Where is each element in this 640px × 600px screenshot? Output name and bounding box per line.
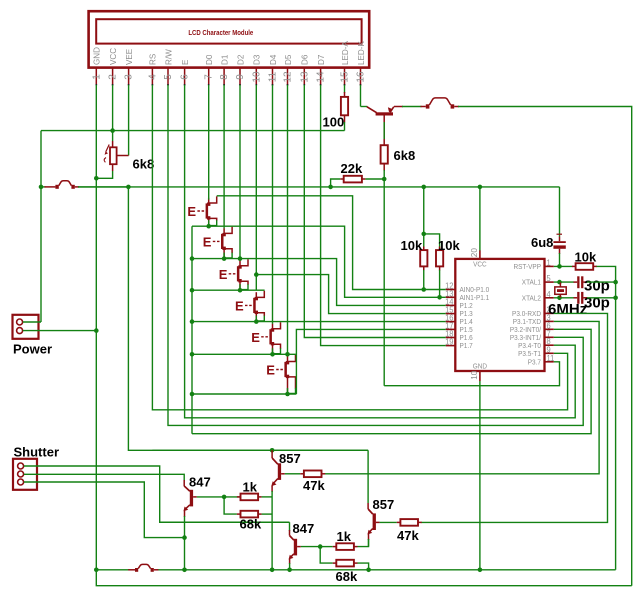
junction staircase L6 [190,352,195,357]
resistor R12 68k leads [333,562,337,564]
svg-text:R/W: R/W [164,49,173,65]
junction Q5 emitter bus [287,568,292,573]
svg-text:10k: 10k [575,249,597,264]
transistor T2 emitter drop [223,249,225,258]
transistor T3 collector stub [239,261,241,266]
IC U1 microcontroller body [455,259,544,371]
wire R3 to node y179 [383,164,385,171]
wire Shutter pin1 row [24,466,290,522]
junction VCC row chip [478,185,483,190]
IC U1 right pin 8 (P3.4-T0) stub [545,344,554,346]
LCD pin 4 (RS) stub [151,67,153,85]
wire top bus corner down to 857-2 [367,450,369,503]
transistor T2 collector stub [223,228,225,233]
junction R6 AIN1 [437,295,442,300]
wire D5 vertical [287,85,289,357]
wire 68k2 branch [320,547,333,564]
transistor Q4 base lead [281,473,285,475]
wire L4 row stub [192,289,265,291]
transistor T3 base dashed lead [229,273,237,275]
LCD pin 5 (R/W) stub [167,67,169,85]
svg-text:P3.4-T0: P3.4-T0 [518,343,541,350]
svg-text:5: 5 [547,274,552,283]
IC U1 VCC pin 20 stub [479,250,481,259]
svg-text:AIN1-P1.1: AIN1-P1.1 [460,295,490,302]
transistor T3 collector pad [238,265,241,268]
IC U1 right pin 2 (P3.0-RXD) stub [545,312,554,314]
resistor R7 10k leads [572,265,576,267]
junction T3 emitter [238,288,243,293]
svg-text:D6: D6 [301,54,310,65]
IC U1 right pin 5 (XTAL1) stub [545,281,554,283]
svg-text:68k: 68k [240,517,262,532]
wire D1 vertical [223,85,225,228]
junction staircase L4 [190,288,195,293]
transistor Q1 emitter lead with arrow [390,107,394,113]
wire VCC row to chip pin20 [479,187,481,251]
transistor T6 emitter drop [287,377,289,394]
wire Shutter pin2 row [24,474,184,481]
transistor T3 emitter pad [238,279,241,282]
svg-text:4: 4 [147,74,158,80]
transistor Q1 base bar [376,112,393,115]
svg-text:847: 847 [293,521,315,536]
transistor T4 emitter loop [257,313,265,316]
junction staircase L3 [190,256,195,261]
svg-text:E: E [235,299,244,314]
resistor R13 47k body [400,519,418,526]
IC U1 left pin 17 (P1.5) stub [446,328,456,330]
transistor T3 emitter loop [241,281,249,285]
transistor T2 emitter pad [222,247,225,250]
svg-text:30p: 30p [584,278,610,295]
capacitor C1 6u8 plus mark [557,233,563,235]
wire P3.7 row to 6k8 node [384,362,559,386]
wire LCD pin2 VCC vertical [112,85,114,141]
LCD module U$1 outline [89,11,370,67]
transistor Q3 base bar [190,490,193,507]
IC U1 GND pin 10 stub [479,371,481,381]
capacitor C3 30p plates [577,292,579,304]
wire L7 row [192,393,296,395]
svg-text:RST-VPP: RST-VPP [513,264,541,271]
svg-text:P3.5-T1: P3.5-T1 [518,351,541,358]
capacitor C2 leads [574,281,578,283]
svg-text:P3.1-TXD: P3.1-TXD [513,319,541,326]
wire XTAL2 row [554,297,574,299]
IC U1 left pin 18 (P1.6) stub [446,337,456,339]
wire R6 bottom to AIN1 row [439,270,441,297]
svg-text:AIN0-P1.0: AIN0-P1.0 [460,287,490,294]
junction staircase L7 [190,392,195,397]
transistor T3 collector loop [241,259,249,266]
wire LED-K to transistor Q1 [361,106,368,108]
transistor Q4 857 collector lead [271,450,273,458]
transistor Q6 857 collector lead [367,503,369,509]
transistor Q6 base bar [373,513,376,530]
transistor T1 base dashed lead [197,210,205,212]
wire node y179 down to P3.7 row [383,179,385,386]
transistor Q5 847 collector lead [289,530,291,536]
resistor R3 6k8 body [381,145,388,163]
wire E to T0 row [185,85,576,418]
junction Shutter3-emitter [182,535,187,540]
junction VCC pin2 [110,128,115,133]
LCD pin 10 (D3) stub [255,67,257,85]
junction T4 emitter [254,319,259,324]
svg-text:11: 11 [268,71,279,82]
junction Power- GND [94,328,99,333]
connector SV1 Power body [13,315,39,339]
svg-text:857: 857 [279,451,301,466]
transistor T6 collector loop [288,355,296,362]
transistor T1 collector pad [207,203,210,206]
svg-text:100: 100 [323,114,345,129]
transistor T5 emitter pad [271,342,274,345]
wire 68k right to emitter vertical [262,513,273,515]
IC U1 left pin 14 (P1.2) stub [446,304,456,306]
wire VCC row y187 [41,186,46,188]
LCD pin 7 (D0) stub [208,67,210,85]
svg-text:1: 1 [91,74,102,80]
svg-text:6: 6 [180,74,191,80]
junction D2 end [238,256,243,261]
transistor Q4 base bar [278,463,281,480]
svg-text:2: 2 [108,74,119,80]
svg-text:47k: 47k [397,528,419,543]
junction R5 AIN0 [421,287,426,292]
transistor T2 emitter loop [225,249,233,253]
wire Q1 emitter to jumper [394,106,403,108]
wire R/W to INT1 row [168,85,583,425]
wire LCD pin15 LED-A down [344,85,346,93]
resistor R11 1k leads [320,546,333,548]
trimmer R1 arrow [106,145,109,152]
IC U1 right pin 9 (P3.5-T1) stub [545,352,554,354]
LCD pin 13 (D6) stub [303,67,305,85]
transistor Q3 847 collector lead [183,480,185,486]
svg-text:10k: 10k [438,238,460,253]
junction 30p right 1 [613,280,618,285]
crystal Q2 stubs [559,282,561,287]
junction GND bottom bus [478,568,483,573]
transistor T3 base bar [237,266,240,281]
transistor T6 emitter pad [286,375,289,378]
junction VCC row x423.75 [421,185,426,190]
transistor T5 emitter loop [273,344,281,349]
junction staircase L5 [190,319,195,324]
svg-text:P1.3: P1.3 [460,311,473,318]
LCD pin 1 (GND) stub [95,67,97,85]
LCD pin 8 (D1) stub [223,67,225,85]
resistor R10 47k body [304,471,322,478]
svg-text:XTAL2: XTAL2 [522,295,541,302]
wire RST row [554,265,573,267]
wire 68k branch [224,497,237,514]
capacitor C1 leads [559,237,561,242]
resistor R12 68k body [336,560,354,567]
svg-text:LED-A: LED-A [341,41,350,65]
transistor T5 base dashed lead [261,336,269,338]
LCD pin 2 (VCC) stub [112,67,114,85]
wire GND pin down to bottom bus [479,381,481,570]
svg-text:6k8: 6k8 [133,156,155,171]
IC U1 right pin 6 (P3.2-INT0/) stub [545,328,554,330]
IC U1 left pin 13 (AIN1-P1.1) stub [446,296,456,298]
junction D5 end [285,352,290,357]
svg-text:E: E [187,204,196,219]
svg-text:8: 8 [219,74,230,80]
svg-text:1k: 1k [337,529,352,544]
LCD pin 16 (LED-K) stub [360,67,362,85]
transistor T5 collector stub [272,324,274,329]
wire TXD down to 47k row [325,321,599,473]
transistor T1 emitter pad [207,216,210,219]
capacitor C2 30p plates [577,276,579,288]
wire D3 tap to P1.3 [256,275,445,314]
wire 10k to right vertical [597,266,616,569]
svg-text:11: 11 [547,354,555,363]
IC U1 left pin 12 (AIN0-P1.0) stub [446,289,456,291]
svg-text:D2: D2 [236,54,245,65]
svg-text:D5: D5 [284,54,293,65]
svg-text:10: 10 [470,370,479,380]
wire 30p to right vertical [587,281,616,283]
connector SV2 Shutter body [13,459,37,490]
wire Q3 emitter down to bus [184,511,186,518]
svg-text:D3: D3 [253,54,262,65]
wire 30p2 to right vertical [587,297,616,299]
junction RST [557,264,562,269]
wire D7 vertical to P1.7 row [321,85,446,346]
LCD pin 15 (LED-A) stub [344,67,346,85]
wire Q5 emitter to bus [289,559,291,565]
jumper J3 bottom [128,569,135,571]
crystal Q2 body [555,287,566,294]
svg-text:19: 19 [445,337,453,346]
svg-text:E: E [203,235,212,250]
wire bottom bus GND [96,569,129,571]
transistor T3 emitter drop [239,282,241,291]
resistor R6 10k body [436,250,443,266]
wire RXD down to 47k2 row [421,313,607,522]
resistor R10 47k leads [300,473,304,475]
wire L6 row stub [192,353,296,355]
svg-text:E: E [219,267,228,282]
svg-text:LED-K: LED-K [357,41,366,65]
wire XTAL1 row [554,281,574,283]
wire R5 bottom to AIN0 row [423,270,425,290]
svg-text:E: E [266,363,275,378]
junction XTAL2 [557,296,562,301]
svg-text:10: 10 [251,71,262,83]
svg-text:D7: D7 [317,54,326,65]
resistor R8 1k leads [224,496,240,498]
svg-text:5: 5 [163,74,174,80]
transistor Q6 base lead [376,521,380,523]
transistor T2 base bar [221,234,224,249]
wire Shutter pin3 row [24,482,185,538]
connector Shutter pin circle 1 [18,463,24,469]
IC U1 right pin 7 (P3.3-INT1/) stub [545,336,554,338]
transistor T4 collector pad [255,297,258,300]
wire L1 row D0 to AIN0 [217,196,446,290]
connector Shutter pin circle 2 [18,471,24,477]
wire LCD pin16 LED-K down [360,85,362,107]
resistor R9 68k body [241,511,259,518]
svg-text:D4: D4 [269,54,278,65]
wire VCC row y130 [41,130,345,132]
junction GND bus left [94,568,99,573]
wire D0 vertical [208,85,210,200]
transistor Q3 emitter lead with arrow [185,505,190,510]
junction 10k pair top [421,232,426,237]
resistor R5 10k body [420,250,427,266]
svg-text:P1.2: P1.2 [460,303,473,310]
svg-text:1: 1 [547,258,551,267]
wire 1k right to 857 emitter [262,496,273,498]
junction T1 emitter [206,224,211,229]
svg-text:P1.4: P1.4 [460,319,473,326]
junction 22k VCC row [328,185,333,190]
svg-text:VCC: VCC [473,261,487,268]
svg-text:12: 12 [283,71,294,83]
transistor Q5 base lead [297,546,301,548]
svg-text:10k: 10k [401,238,423,253]
svg-text:GND: GND [473,363,487,370]
svg-text:7: 7 [204,74,215,80]
svg-text:P1.5: P1.5 [460,327,473,334]
transistor T2 collector loop [225,227,233,234]
svg-text:LCD Character Module: LCD Character Module [188,29,253,37]
wire Power+ vertical x41 [40,131,42,322]
wire 68k2 right corner to bus [358,563,369,570]
IC U1 left pin 19 (P1.7) stub [446,345,456,347]
transistor T6 emitter loop [288,377,296,389]
LCD pin 14 (D7) stub [320,67,322,85]
svg-text:16: 16 [356,71,367,83]
junction 30p right 2 [613,296,618,301]
svg-text:6MHz: 6MHz [548,301,587,318]
transistor T5 base bar [269,329,272,344]
wire RS to T1 row [152,85,567,410]
svg-text:1k: 1k [243,480,258,495]
transistor T4 collector stub [255,292,257,297]
wire VCC to 10k pair [423,187,425,234]
transistor T1 collector loop [209,196,217,203]
resistor R5 10k leads [423,234,425,250]
transistor T4 collector loop [257,291,265,298]
IC U1 right pin 4 (XTAL2) stub [545,297,554,299]
junction T6 emitter [285,392,290,397]
junction 1k/68k node [222,495,227,500]
svg-text:20: 20 [470,248,479,258]
connector Power pin circle 1 [17,319,23,325]
IC U1 right pin 1 (RST-VPP) stub [545,265,554,267]
svg-text:P3.3-INT1/: P3.3-INT1/ [510,335,541,342]
wire 1k2 right to 857-2 emitter [358,539,369,547]
svg-text:VCC: VCC [109,48,118,65]
transistor T4 emitter pad [255,311,258,314]
wire L3 row to P1.2 [192,259,446,306]
junction Q4 emitter bus [270,568,275,573]
svg-text:Power: Power [13,342,52,357]
wire VEE circuit to T1 row [128,187,368,450]
wire 6u8 to RST [559,253,561,266]
capacitor C3 leads [574,297,578,299]
wire 22k right to node [365,178,384,180]
transistor T2 collector pad [222,233,225,236]
svg-text:6k8: 6k8 [394,148,416,163]
transistor T4 base bar [253,298,256,313]
svg-text:RS: RS [149,53,158,65]
resistor R9 68k leads [237,513,241,515]
connector Power pin circle 2 [17,328,23,334]
svg-text:47k: 47k [303,478,325,493]
capacitor C1 6u8 plates [553,241,565,243]
junction Q3 emitter bus [182,568,187,573]
transistor T4 base dashed lead [245,304,253,306]
svg-text:4: 4 [547,290,552,299]
IC U1 left pin 15 (P1.3) stub [446,313,456,315]
LCD pin 3 (VEE) stub [128,67,130,85]
LCD pin 6 (E) stub [184,67,186,85]
resistor R2 100 leads [344,92,346,97]
transistor T1 emitter loop [209,218,217,220]
connector Shutter pin circle 3 [18,479,24,485]
junction trimmer-GND [94,176,99,181]
svg-text:XTAL1: XTAL1 [522,279,541,286]
svg-text:P1.6: P1.6 [460,335,473,342]
transistor T6 collector stub [287,356,289,361]
wire Q4 emitter down [271,486,273,493]
wire LCD pin3 VEE vertical [128,85,130,156]
wire D4 vertical [272,85,274,324]
wire 22k left to VCC row [331,179,341,187]
svg-text:14: 14 [316,71,327,83]
resistor R4 22k body [344,176,362,183]
transistor T5 emitter drop [272,345,274,355]
svg-text:6u8: 6u8 [531,235,553,250]
resistor R8 1k body [241,494,259,501]
transistor T1 emitter drop [208,219,210,226]
svg-text:22k: 22k [341,161,363,176]
svg-text:68k: 68k [336,569,358,584]
wire D3 vertical [255,85,257,290]
wire Q6 emitter down [368,534,370,541]
resistor R7 10k body [576,263,594,270]
wire Q1 base down [383,116,385,146]
wire bottom bus LED [96,570,631,586]
svg-text:GND: GND [93,47,102,65]
wire D2 vertical [239,85,241,261]
resistor R11 1k body [336,543,354,550]
svg-text:P3.7: P3.7 [528,359,541,366]
jumper J2 top [421,106,426,108]
transistor T6 base bar [284,362,287,377]
resistor R6 10k leads [439,247,441,251]
svg-text:P1.7: P1.7 [460,343,473,350]
LCD pin 12 (D5) stub [287,67,289,85]
wire Shutter1 row corner down [289,522,291,531]
svg-text:857: 857 [373,497,395,512]
svg-text:13: 13 [299,71,310,83]
wire VCC row corner down to 6u8 [559,187,561,237]
svg-text:P3.0-RXD: P3.0-RXD [512,311,541,318]
transistor Q4 emitter lead with arrow [272,479,278,485]
svg-text:D1: D1 [220,54,229,65]
IC U1 left pin 16 (P1.4) stub [446,321,456,323]
